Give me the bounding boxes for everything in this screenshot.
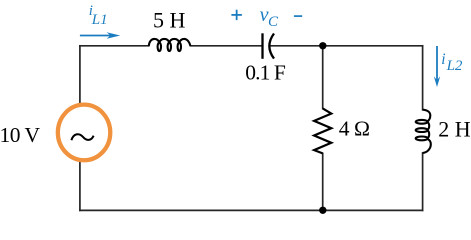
svg-text:0.1: 0.1	[245, 61, 269, 85]
wire middle vertical below resistor	[322, 153, 324, 210]
wire between 5H inductor and capacitor	[190, 45, 262, 47]
wire top-left segment	[80, 45, 149, 47]
inductor L2 2 H coil	[416, 110, 431, 153]
wire middle vertical above resistor	[322, 46, 324, 109]
arrow iL1 current arrow	[80, 32, 120, 38]
svg-text:4 Ω: 4 Ω	[339, 117, 370, 141]
svg-text:L1: L1	[91, 12, 108, 28]
source V1 10 V sinusoidal source circle	[58, 105, 110, 161]
svg-text:C: C	[268, 14, 279, 30]
wire bottom	[80, 209, 423, 211]
label plus sign	[231, 10, 242, 20]
node A top junction dot	[319, 42, 326, 49]
svg-text:F: F	[274, 61, 286, 85]
resistor R1 4 ohm zigzag	[314, 108, 331, 153]
arrow iL2 current arrow	[434, 46, 440, 87]
svg-text:i: i	[441, 51, 445, 68]
wire left vertical below source	[79, 162, 81, 211]
wire right vertical above 2H	[422, 46, 424, 110]
inductor L1 5 H coil	[149, 39, 191, 51]
svg-text:2 H: 2 H	[438, 116, 471, 141]
capacitor C1 left plate	[261, 33, 263, 59]
source V1 sine tilde	[71, 134, 93, 140]
svg-text:5 H: 5 H	[153, 8, 186, 33]
svg-text:10 V: 10 V	[0, 123, 40, 147]
wire capacitor to top-right corner	[269, 45, 422, 47]
wire right vertical below 2H	[422, 153, 424, 210]
capacitor C1 right curved plate	[269, 34, 274, 59]
node B bottom junction dot	[319, 207, 326, 214]
wire left vertical above source	[79, 46, 81, 104]
svg-text:L2: L2	[446, 58, 463, 74]
label minus sign	[294, 15, 302, 17]
